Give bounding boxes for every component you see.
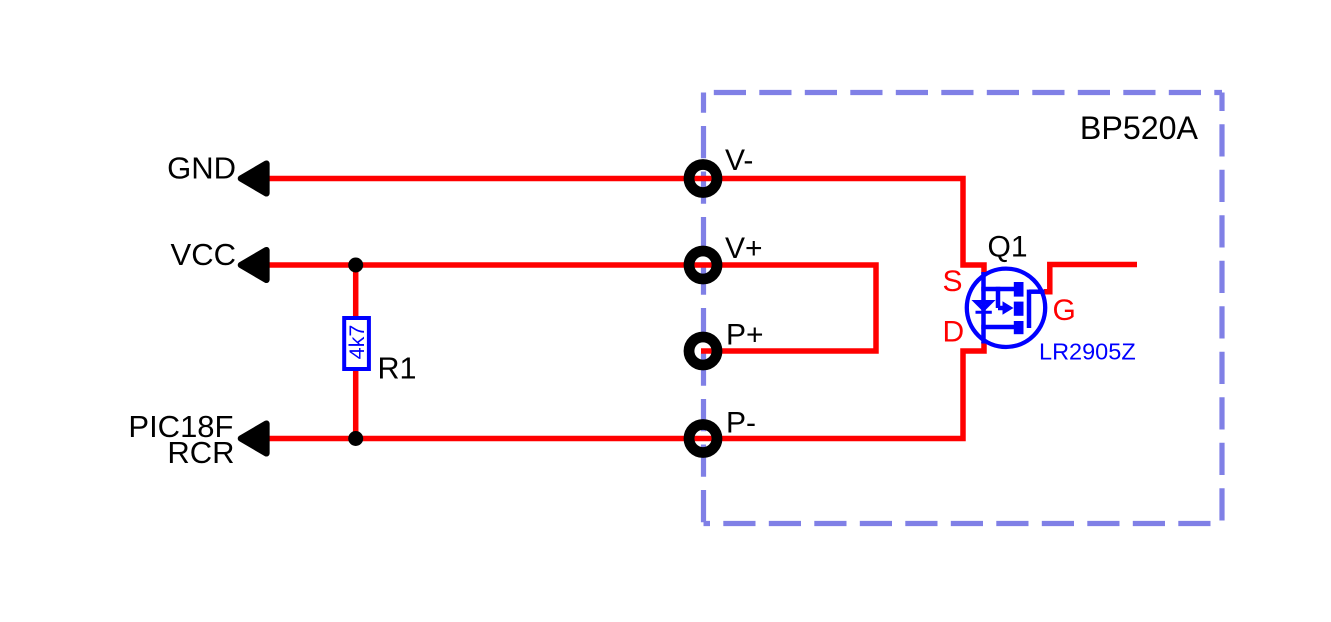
module box BP520A bottom edge (dashed) xyxy=(704,521,1223,526)
arrow GND xyxy=(241,164,266,194)
svg-text:D: D xyxy=(943,316,965,349)
terminal P- (donut) xyxy=(689,425,717,453)
arrow VCC xyxy=(241,250,266,280)
svg-text:R1: R1 xyxy=(378,352,417,386)
wire MOSFET G to the right (net G) xyxy=(1044,265,1137,292)
MOSFET bulk arrow line xyxy=(998,306,1003,311)
body diode crossbar xyxy=(976,311,992,314)
terminal V- (donut) xyxy=(689,165,717,193)
MOSFET Q1 body circle xyxy=(967,269,1045,347)
terminal V+ (donut) xyxy=(689,251,717,279)
svg-text:RCR: RCR xyxy=(167,435,234,470)
svg-text:VCC: VCC xyxy=(171,237,236,272)
svg-text:BP520A: BP520A xyxy=(1080,110,1199,146)
terminal P+ (donut) xyxy=(689,337,717,365)
MOSFET gate hook to pin xyxy=(1029,289,1045,294)
junction dot at PIC/R1 xyxy=(348,431,363,446)
MOSFET bottom horizontal (drain connection) xyxy=(981,325,1014,330)
MOSFET gate vertical line xyxy=(1027,290,1032,328)
body diode triangle xyxy=(976,302,990,309)
arrow PIC18F/RCR xyxy=(241,424,266,454)
svg-text:P-: P- xyxy=(726,407,756,440)
svg-text:P+: P+ xyxy=(726,319,764,352)
MOSFET channel bar middle xyxy=(1014,302,1024,316)
svg-text:G: G xyxy=(1053,294,1076,327)
MOSFET channel bar top xyxy=(1014,282,1024,297)
svg-text:V-: V- xyxy=(725,144,753,177)
svg-text:4k7: 4k7 xyxy=(345,325,369,360)
svg-text:Q1: Q1 xyxy=(988,231,1028,264)
module box BP520A top edge (dashed) xyxy=(704,90,1223,95)
wire VCC to V+ and U-turn to P+ (net V+) xyxy=(270,265,877,351)
junction dot at VCC/R1 xyxy=(348,258,363,273)
wire GND to V- to MOSFET S (net V-) xyxy=(270,179,985,275)
svg-text:LR2905Z: LR2905Z xyxy=(1039,339,1136,365)
MOSFET left source/drain vertical line xyxy=(981,272,986,344)
MOSFET channel bar bottom xyxy=(1014,321,1024,334)
svg-text:V+: V+ xyxy=(725,232,763,265)
svg-text:S: S xyxy=(943,265,963,298)
wire PIC18F/RCR to P- to MOSFET D (net P-) xyxy=(270,342,985,439)
svg-text:GND: GND xyxy=(167,151,236,186)
MOSFET bulk arrow head xyxy=(1003,301,1014,314)
wire VCC junction down through R1 to PIC row xyxy=(353,265,359,439)
module box BP520A left edge (dashed) xyxy=(701,93,706,524)
module box BP520A right edge (dashed) xyxy=(1219,93,1224,524)
MOSFET top horizontal (source connection) xyxy=(981,287,1014,292)
resistor R1 (blue box) xyxy=(344,318,369,369)
MOSFET bulk stub vertical xyxy=(996,287,1001,308)
